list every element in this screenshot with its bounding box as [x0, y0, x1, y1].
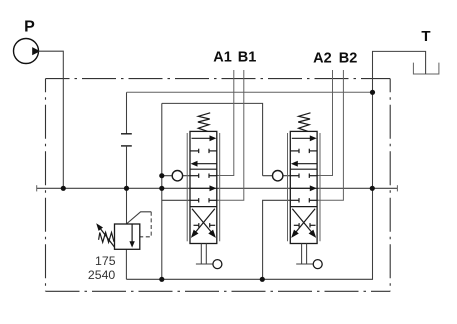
wire: relief valve drain — [125, 249, 127, 279]
enclosure boundary (dash-dot block outline) — [46, 79, 391, 292]
svg-text:175: 175 — [95, 254, 116, 268]
svg-text:A2: A2 — [313, 50, 332, 66]
relief body — [115, 224, 140, 249]
pos3 blocked ports — [194, 224, 199, 226]
gallery right end tick — [396, 185, 398, 191]
tank T symbol — [413, 63, 439, 74]
line break cap lower — [121, 145, 132, 147]
node tank gallery to T — [370, 90, 375, 95]
pos3 crossed flow arrows — [194, 209, 215, 234]
wire: relief valve feed line (upper segment) — [126, 92, 128, 134]
wire: check valve 1 feed — [162, 175, 190, 177]
wire: work port A2 — [317, 70, 332, 176]
wire: valve 1 left port at lower level — [162, 199, 190, 201]
valve V2 (identical spool section) — [273, 113, 323, 269]
svg-text:T: T — [421, 28, 430, 45]
wire: work port B2 — [317, 70, 343, 200]
svg-text:B1: B1 — [238, 50, 257, 66]
section flank lines — [186, 133, 188, 241]
wire: work port B1 — [217, 70, 244, 200]
node relief-gallery — [124, 186, 129, 191]
wire: open-center / pressure gallery — [37, 187, 398, 189]
node valve2 drain — [260, 277, 265, 282]
wire: relief valve feed line (lower segment) — [126, 146, 128, 224]
spring — [198, 113, 210, 132]
node pump-gallery — [61, 186, 66, 191]
line break cap upper — [121, 133, 132, 135]
valve V1 (spool section with spring, check valve and lever) — [172, 113, 222, 269]
svg-text:A1: A1 — [213, 50, 232, 66]
relief valve RV1 — [96, 212, 151, 250]
wire: valve 2 left port and drain — [263, 200, 291, 279]
wire: tank gallery (top) — [127, 91, 373, 93]
node valve1 drain — [159, 277, 164, 282]
relief spring — [99, 232, 114, 242]
relief adjust arrow — [99, 227, 114, 247]
wire: check valve 2 feed — [263, 175, 291, 177]
node valve1-gallery — [159, 186, 164, 191]
wire: valve 1 feed/drain line (left vertical) — [161, 103, 163, 279]
relief internal flow arrow — [131, 224, 133, 242]
lever operator — [200, 244, 202, 265]
node check1 branch — [159, 173, 164, 178]
pos1 flow arrow right — [192, 137, 211, 139]
pos2 gallery flow arrow — [190, 187, 210, 189]
wire: work port A1 — [217, 70, 234, 176]
pos2 blocked ports upper — [190, 175, 199, 177]
wire: pump outlet to open-center gallery — [39, 51, 64, 188]
wire: tank return line (T) — [126, 51, 425, 279]
spool body box — [190, 131, 217, 243]
node gallery to T — [370, 186, 375, 191]
pump P (circle with flow triangle) — [14, 39, 41, 64]
position divider 1 — [190, 168, 217, 170]
svg-text:2540: 2540 — [88, 268, 116, 282]
pos1 flow arrow left — [197, 163, 217, 165]
pos2 blocked ports lower — [190, 199, 199, 201]
check valve CV1 — [172, 171, 182, 181]
svg-text:P: P — [24, 19, 35, 36]
pos1 blocked ports — [190, 150, 199, 152]
svg-text:B2: B2 — [339, 50, 358, 66]
gallery left end tick — [36, 185, 38, 191]
wire: carryover loop around valve 1 — [162, 103, 263, 175]
relief pilot line — [127, 212, 152, 224]
position divider 2 — [190, 206, 217, 208]
